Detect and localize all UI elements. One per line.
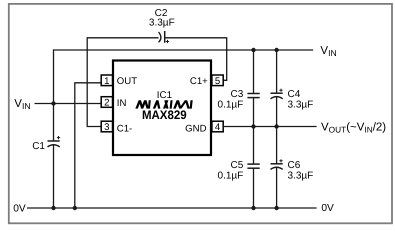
svg-text:3.3µF: 3.3µF: [288, 99, 314, 110]
node junction OUT/0V: [73, 206, 77, 210]
svg-text:IN: IN: [117, 98, 127, 109]
wire 0V rail: [27, 207, 317, 209]
svg-text:4: 4: [215, 122, 221, 133]
svg-text:C5: C5: [231, 160, 244, 171]
wire VIN down to C1: [53, 104, 55, 142]
svg-text:3.3µF: 3.3µF: [288, 170, 314, 181]
svg-text:OUT: OUT: [117, 76, 137, 87]
svg-text:C1+: C1+: [190, 76, 208, 87]
wire C4 top stub: [276, 50, 278, 93]
node junction C4/VIN rail: [274, 48, 278, 52]
pin 2 box: [101, 97, 112, 109]
svg-text:0V: 0V: [321, 203, 334, 214]
wire C5 bottom stub: [253, 168, 255, 208]
node junction C3/VIN rail: [251, 48, 255, 52]
label C3: [218, 89, 244, 110]
label C4: [288, 89, 314, 110]
wire C5 top stub: [253, 127, 255, 165]
wire OUT pin1 to 0V rail: [75, 83, 101, 208]
wire C6 top stub: [276, 127, 278, 164]
wire VIN to IN pin2: [35, 103, 102, 105]
pin 4 box: [212, 121, 223, 133]
svg-text:0.1µF: 0.1µF: [218, 99, 244, 110]
svg-text:1: 1: [104, 76, 109, 87]
node junction C5/0V: [251, 206, 255, 210]
capacitor C4: [271, 89, 283, 99]
capacitor C3: [247, 94, 259, 98]
svg-text:0.1µF: 0.1µF: [218, 170, 244, 181]
wire C4 bottom stub: [276, 97, 278, 126]
pin 3 box: [101, 121, 112, 133]
svg-text:3.3µF: 3.3µF: [149, 18, 175, 29]
svg-text:C6: C6: [288, 160, 301, 171]
wire C3 bottom stub: [253, 98, 255, 127]
node junction C3/VOUT: [251, 124, 255, 128]
label C5: [218, 160, 244, 181]
node junction C6/0V: [274, 206, 278, 210]
node junction VIN/pin2: [51, 101, 55, 105]
label C6: [288, 160, 314, 181]
pin 1 box: [101, 75, 112, 87]
svg-text:2: 2: [104, 98, 109, 109]
label C2 value: [149, 8, 175, 29]
MAXIM logo: [135, 100, 192, 108]
svg-text:C1-: C1-: [117, 124, 132, 135]
wire C3 top stub: [253, 50, 255, 94]
capacitor C5: [247, 164, 259, 168]
wire C2 right plate to C1+ pin5: [165, 38, 227, 81]
svg-text:5: 5: [215, 76, 220, 87]
wire C6 bottom stub: [276, 168, 278, 208]
node junction C1/0V: [51, 206, 55, 210]
wire VIN riser up to top rail: [54, 50, 314, 104]
svg-text:C1: C1: [32, 141, 45, 152]
op-amp U1 IC body MAX829: [113, 61, 211, 156]
node junction C4/VOUT: [274, 124, 278, 128]
wire C1- pin3 to C2 left plate: [87, 38, 158, 127]
svg-text:3: 3: [104, 122, 109, 133]
capacitor C6: [271, 159, 283, 169]
svg-text:GND: GND: [185, 124, 206, 135]
svg-text:IC1: IC1: [157, 90, 172, 101]
wire GND pin4 to VOUT: [223, 126, 316, 128]
svg-text:0V: 0V: [13, 203, 26, 214]
pin 5 box: [212, 75, 223, 87]
capacitor C2: [159, 31, 170, 43]
wire C1 bottom to 0V rail: [53, 145, 55, 208]
capacitor C1: [48, 136, 61, 147]
svg-text:MAX829: MAX829: [142, 108, 187, 122]
